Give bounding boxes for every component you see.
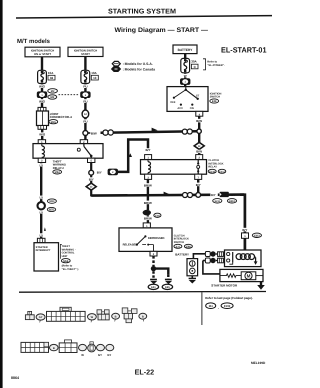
- svg-text:W/G: W/G: [39, 85, 46, 89]
- ground oval E65: [162, 284, 172, 289]
- relay label CLUTCH INTERLOCK RELAY: [208, 159, 223, 168]
- label B/W: [195, 150, 204, 154]
- svg-text:B: B: [53, 347, 55, 350]
- junction circle: [196, 193, 201, 198]
- connector (bowtie) on B/Y branch: [108, 169, 118, 176]
- label W: [183, 74, 187, 78]
- bracket: [203, 59, 206, 70]
- label W/G: [38, 132, 47, 136]
- svg-text:MEL199D: MEL199D: [251, 361, 266, 365]
- pin 2 clutch interlock switch: [150, 251, 157, 256]
- pin 5 theft warning relay (bottom right): [88, 158, 95, 163]
- flow arrow: [152, 128, 158, 132]
- relay switch: [197, 160, 200, 175]
- svg-text:STARTER MOTOR: STARTER MOTOR: [211, 284, 238, 288]
- B/W stub from junction: [88, 132, 90, 134]
- connector label oval M56: [61, 259, 70, 263]
- label B/Y: [210, 193, 217, 197]
- svg-text:UNIT: UNIT: [62, 255, 68, 258]
- connector face B (long grid): [47, 307, 86, 321]
- svg-text:GY: GY: [107, 353, 111, 357]
- wire: [147, 215, 149, 223]
- wire B dashed: [152, 271, 154, 278]
- svg-text:RELAY: RELAY: [208, 166, 217, 169]
- staircase wire from theft relay to clutch interlock relay: [90, 163, 92, 171]
- ring connector M33/B75: [38, 202, 45, 209]
- svg-text:CONNECTOR-4: CONNECTOR-4: [50, 115, 72, 119]
- wire: [40, 209, 42, 238]
- connector (bowtie) on W/G wire: [37, 91, 47, 98]
- connector label oval E37: [174, 244, 182, 248]
- connector face D: [122, 308, 137, 323]
- connector label oval E211: [213, 199, 222, 203]
- splice diamond (USA): [86, 183, 96, 190]
- svg-text:EL-START-01: EL-START-01: [221, 46, 267, 55]
- ground symbol left: [150, 279, 157, 285]
- wire BR/W down: [147, 179, 149, 210]
- wire branch to second ground: [154, 269, 169, 275]
- connector oval I: [106, 344, 114, 357]
- svg-text:B/W: B/W: [91, 131, 97, 135]
- junction circle: [197, 129, 201, 133]
- svg-text:M2: M2: [51, 90, 55, 93]
- svg-text:BR/W: BR/W: [144, 201, 152, 205]
- svg-text:SWITCH: SWITCH: [210, 96, 220, 99]
- svg-text:B/Y: B/Y: [145, 148, 150, 152]
- inline connector pair: [182, 129, 192, 134]
- connector oval A2: [36, 314, 45, 323]
- svg-text:E41: E41: [151, 286, 156, 289]
- dashed tie line: [59, 94, 80, 96]
- connector (bowtie) on W wire: [180, 78, 190, 85]
- wire B/Y main horizontal: [91, 195, 244, 196]
- ground symbol battery: [189, 276, 196, 284]
- connector round G: [88, 342, 96, 352]
- relay box CLUTCH INTERLOCK RELAY: [141, 160, 207, 175]
- label PU: [82, 99, 89, 103]
- connector face E (grid row2): [21, 342, 49, 352]
- wire B/Y corner down to starter: [240, 195, 245, 250]
- wire: [84, 84, 86, 93]
- inline connector pair (terminal): [205, 258, 223, 263]
- label B/Y: [144, 148, 152, 152]
- svg-text:E210: E210: [209, 170, 215, 173]
- wire B/W horizontal: [101, 131, 197, 133]
- svg-text:E37: E37: [176, 245, 181, 248]
- foldout oval E102: [221, 303, 233, 309]
- svg-text:E211: E211: [215, 200, 221, 203]
- solenoid plunger: [229, 252, 232, 264]
- label L: [38, 210, 44, 214]
- wire from junction down to diamond: [90, 175, 92, 183]
- splice diamond (Canada): [194, 142, 204, 149]
- note refer to EL-THEFT: [62, 265, 79, 271]
- connector oval C2: [112, 313, 120, 321]
- header rule: [16, 16, 272, 18]
- label BR/W: [142, 201, 153, 205]
- pin 1 theft warning relay: [38, 140, 45, 144]
- relay coil: [148, 160, 151, 175]
- pin 2 theft warning relay (top right): [80, 140, 87, 144]
- svg-text:13: 13: [93, 76, 97, 80]
- wire: [41, 129, 43, 139]
- flow arrow: [44, 227, 46, 231]
- inline connector pair: [183, 193, 193, 198]
- connector oval D2: [139, 313, 147, 321]
- box STARTER INTERRUPT: [34, 243, 59, 271]
- relay coil: [42, 144, 45, 159]
- svg-text:GY: GY: [39, 316, 43, 319]
- switch box IGNITION SWITCH: [167, 87, 208, 112]
- svg-text:F20: F20: [145, 212, 150, 215]
- power box IGNITION SWITCH ON or START: [25, 47, 60, 57]
- svg-text:M/T models: M/T models: [17, 38, 51, 45]
- ground oval E41: [148, 284, 158, 289]
- svg-text:E212: E212: [229, 200, 235, 203]
- svg-text:B75: B75: [49, 209, 54, 212]
- svg-text:B/Y: B/Y: [211, 193, 216, 197]
- svg-text:ON: ON: [190, 107, 194, 110]
- inline connector pair (terminal): [205, 251, 223, 256]
- connector label oval E28: [210, 99, 219, 103]
- ground symbol right: [165, 279, 172, 285]
- svg-text:L5: L5: [39, 163, 43, 167]
- svg-text:Refer to last page (Foldout pa: Refer to last page (Foldout page).: [205, 296, 253, 300]
- label BR/W: [142, 183, 153, 187]
- wire: [41, 57, 43, 71]
- fuse F3 30A: [181, 58, 190, 72]
- fuse number box: [191, 64, 198, 69]
- connector label oval M3: [48, 95, 57, 99]
- svg-text:ON or START: ON or START: [34, 53, 51, 56]
- connector label oval M33: [47, 199, 56, 203]
- relay box THEFT WARNING RELAY-2: [33, 144, 103, 159]
- pin 4 ignition switch: [196, 111, 203, 116]
- svg-text:8864: 8864: [11, 376, 19, 380]
- svg-text:E211: E211: [219, 170, 225, 173]
- svg-text:OFF: OFF: [170, 101, 176, 104]
- svg-text:STARTING SYSTEM: STARTING SYSTEM: [108, 8, 176, 15]
- label B/Y: [194, 183, 202, 187]
- label B/Y: [87, 177, 95, 181]
- pin 3 theft warning relay (bottom left): [38, 158, 45, 163]
- legend diamond USA: [112, 61, 120, 66]
- connector label oval E212: [252, 233, 261, 237]
- svg-text:E38: E38: [155, 214, 160, 217]
- label L: [38, 196, 44, 200]
- connector label oval E211: [218, 169, 226, 173]
- svg-text:RELEASED: RELEASED: [123, 244, 138, 247]
- wire B dashed: [152, 256, 154, 266]
- field winding resistor: [220, 274, 241, 278]
- harness connector black oval: [143, 210, 151, 216]
- label B/W: [195, 119, 204, 123]
- svg-text:B/W: B/W: [196, 150, 202, 154]
- wire down to motor feed: [203, 261, 220, 274]
- label BR/W: [142, 217, 153, 221]
- flow arrow up: [129, 153, 132, 157]
- note refer to EL-POWER: [207, 61, 225, 67]
- label IGNITION SWITCH: [210, 92, 222, 98]
- ground symbol starter: [257, 282, 265, 290]
- svg-text:B/Y: B/Y: [242, 228, 247, 232]
- connector oval H: [97, 344, 105, 357]
- svg-text:E28: E28: [212, 100, 217, 103]
- svg-text:E66: E66: [186, 245, 191, 248]
- label B/Y: [241, 228, 249, 232]
- svg-text:Wiring Diagram — START —: Wiring Diagram — START —: [115, 27, 209, 34]
- svg-text:M3: M3: [50, 96, 54, 99]
- svg-text:B/Y: B/Y: [89, 177, 94, 181]
- pin 7 clutch interlock relay (bottom right): [195, 174, 202, 179]
- wire staircase: [118, 140, 148, 172]
- connector oval E2: [50, 344, 59, 350]
- inline connector pair: [103, 130, 113, 135]
- wire: [84, 118, 86, 131]
- svg-text:10A: 10A: [48, 71, 54, 75]
- ignition switch contacts: [173, 87, 199, 106]
- svg-text:B/W: B/W: [196, 119, 202, 123]
- page separator rule: [19, 291, 266, 294]
- connector oval F2: [79, 344, 87, 357]
- connector face F (grid with tab): [59, 340, 77, 353]
- svg-text:BR/W: BR/W: [144, 217, 152, 221]
- solenoid terminals: [227, 252, 230, 262]
- wire: [84, 136, 86, 140]
- foldout note box: [201, 292, 203, 325]
- svg-text:B: B: [115, 315, 117, 318]
- clutch switch contacts: [136, 235, 154, 251]
- switch box CLUTCH INTERLOCK SWITCH: [119, 228, 172, 252]
- svg-text:M35: M35: [51, 121, 57, 124]
- svg-text:30A: 30A: [191, 60, 197, 64]
- wire: [41, 97, 43, 107]
- svg-text:E65: E65: [165, 286, 170, 289]
- label PU: [82, 119, 89, 123]
- fuse number box 32: [48, 75, 55, 80]
- connector label oval M2: [48, 89, 58, 93]
- relay switch: [77, 144, 92, 159]
- svg-text:L5: L5: [39, 196, 43, 200]
- motor M: [241, 272, 263, 280]
- svg-text:M: M: [247, 274, 251, 279]
- label THEFT WARNING CONTROL UNIT: [62, 245, 76, 258]
- pin 2 clutch interlock relay: [196, 155, 203, 160]
- page connector black box: [220, 192, 229, 197]
- label CLUTCH INTERLOCK SWITCH: [174, 234, 189, 244]
- scan border strip: [0, 0, 3, 388]
- svg-text:“EL-POWER”.: “EL-POWER”.: [207, 64, 225, 67]
- wire: [41, 84, 43, 93]
- svg-text:: Models for Canada: : Models for Canada: [123, 68, 156, 72]
- svg-text:PU: PU: [83, 99, 87, 103]
- svg-text:BR/W: BR/W: [144, 183, 152, 187]
- connector label oval M54: [53, 170, 62, 174]
- svg-text:B/Y: B/Y: [196, 183, 201, 187]
- svg-text:B: B: [142, 315, 144, 318]
- svg-text:32: 32: [50, 76, 54, 80]
- junction dot: [151, 266, 156, 271]
- svg-text:E102: E102: [224, 304, 231, 308]
- pin 1 starter motor: [242, 233, 249, 238]
- fuse F2: [81, 70, 90, 83]
- svg-text:W/G: W/G: [39, 133, 46, 137]
- power box BATTERY: [173, 45, 197, 54]
- junction circle: [89, 170, 94, 175]
- label L: [38, 233, 44, 237]
- svg-text:EL-22: EL-22: [135, 368, 155, 377]
- svg-text:BATTERY: BATTERY: [178, 48, 194, 52]
- svg-text:L5: L5: [39, 233, 43, 237]
- wire: [184, 73, 186, 87]
- starter solenoid box: [225, 250, 262, 267]
- svg-text:ACC: ACC: [177, 107, 183, 110]
- wire: [198, 116, 200, 129]
- junction circle: [83, 131, 88, 136]
- wire battery to starter B terminal: [193, 254, 205, 259]
- connector (bowtie) on PU wire: [80, 91, 90, 98]
- flow arrow: [164, 192, 170, 196]
- svg-text:B/Y: B/Y: [231, 193, 236, 197]
- connector label oval E210: [208, 169, 216, 173]
- wire B dashed: [167, 275, 169, 280]
- connector label oval E38: [154, 213, 161, 217]
- svg-text:W: W: [184, 74, 187, 78]
- svg-text:ST: ST: [196, 94, 200, 97]
- legend diamond Canada: [112, 67, 121, 72]
- label W/G: [38, 99, 47, 103]
- svg-text:M33: M33: [49, 200, 55, 203]
- grommet connector 12: [82, 110, 89, 118]
- connector label oval B75: [47, 207, 55, 211]
- pin 1 clutch interlock switch: [143, 223, 150, 228]
- svg-text:M4: M4: [209, 304, 213, 308]
- svg-text:W: W: [81, 353, 84, 357]
- svg-text:INTERRUPT: INTERRUPT: [36, 249, 51, 252]
- wire: [84, 57, 86, 71]
- svg-text:B/Y: B/Y: [97, 170, 102, 174]
- wire L down from relay pin 2: [40, 163, 42, 202]
- connector face C: [97, 310, 109, 320]
- bracket: [60, 244, 62, 258]
- solenoid internal ground arrow: [254, 257, 258, 265]
- connector label oval E66: [184, 244, 192, 248]
- connector oval B2: [88, 314, 97, 323]
- svg-text:BATTERY: BATTERY: [175, 253, 189, 257]
- svg-text:E212: E212: [254, 234, 260, 237]
- svg-text:DEPRESSED: DEPRESSED: [148, 237, 165, 240]
- pin connector starter interrupt: [37, 238, 45, 242]
- wire: [198, 133, 200, 143]
- label W/G: [38, 84, 47, 88]
- svg-text:L5: L5: [39, 211, 43, 215]
- svg-text:PU: PU: [83, 120, 87, 124]
- svg-text:10A: 10A: [91, 71, 97, 75]
- wire: [198, 149, 200, 154]
- svg-text:SWITCH: SWITCH: [174, 241, 184, 244]
- connector label oval E212: [227, 199, 236, 203]
- wire: [84, 97, 86, 110]
- svg-text:GY: GY: [98, 353, 102, 357]
- connector label oval M35: [49, 120, 58, 124]
- svg-text:M54: M54: [55, 171, 61, 174]
- label L: [38, 163, 44, 167]
- svg-text:M56: M56: [63, 260, 69, 263]
- svg-text:: Models for U.S.A.: : Models for U.S.A.: [123, 62, 153, 66]
- svg-text:RELAY-2: RELAY-2: [53, 167, 65, 170]
- fuse F1: [38, 70, 47, 83]
- svg-text:PU: PU: [83, 85, 87, 89]
- power box IGNITION SWITCH START: [68, 47, 103, 56]
- pin 3 clutch interlock relay (bottom left): [145, 174, 152, 179]
- wire starter S terminal row: [203, 260, 206, 262]
- battery symbol: [187, 259, 198, 276]
- joint connector-4: [37, 107, 49, 129]
- label PU: [82, 84, 89, 88]
- starter motor box: [220, 269, 263, 281]
- svg-text:START: START: [81, 53, 90, 56]
- solenoid coil: [236, 254, 256, 260]
- wire: [184, 54, 186, 59]
- wire: [90, 190, 92, 197]
- pin 1 clutch interlock relay: [145, 155, 152, 160]
- foldout oval M4: [206, 303, 216, 309]
- svg-text:W/G: W/G: [39, 99, 46, 103]
- fuse number box 13: [91, 75, 98, 80]
- wire B/Y relay to main: [197, 179, 199, 193]
- connector face A: [25, 311, 34, 319]
- svg-text:“EL-THEFT”.): “EL-THEFT”.): [62, 268, 79, 271]
